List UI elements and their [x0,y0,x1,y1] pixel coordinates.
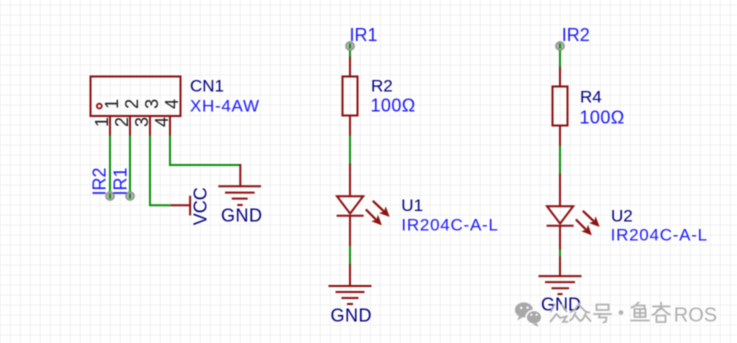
pin number 3 [132,117,152,127]
svg-text:IR204C-A-L: IR204C-A-L [611,226,708,245]
wire R2 to U1 [349,136,351,165]
pin 3 stub [149,116,151,136]
node dot IR2 [556,42,564,50]
power port VCC [171,196,191,216]
node dot pin2 [126,192,134,200]
gong [551,305,555,312]
svg-text:U2: U2 [611,206,633,225]
svg-text:1: 1 [92,117,112,127]
pin number 1 [92,117,112,127]
LED U2 [547,174,574,250]
value 100ohm [371,95,416,115]
node dot pin1 [106,192,114,200]
designator U1 [401,196,423,215]
ground GND (U2) [539,257,582,295]
xiang [653,306,670,308]
pin number 2 [112,117,132,127]
svg-text:2: 2 [112,117,132,127]
designator CN1 [190,76,224,95]
svg-text:U1: U1 [401,196,423,215]
svg-text:VCC: VCC [191,187,211,225]
svg-text:IR1: IR1 [350,25,378,45]
pin name 3 (inside box) [142,99,162,109]
watermark text ROS [674,305,717,327]
pin number 4 [152,117,172,127]
yu [632,303,639,308]
ground text GND (connector) [221,205,263,225]
svg-text:ROS: ROS [674,305,717,327]
svg-text:4: 4 [152,117,172,127]
LED U2 emission arrows [576,211,599,235]
wire IR1 to R2 [349,51,351,58]
pin name 1 (inside box) [102,99,122,109]
LED U1 emission arrows [366,201,389,225]
svg-text:XH-4AW: XH-4AW [190,97,260,116]
wire pin3 down [149,136,151,206]
designator R4 [580,88,602,107]
net label IR1 (rotated) [111,167,131,195]
wire U1 to ground [349,246,351,265]
pin 2 stub [129,116,131,136]
net label IR2 (top) [562,25,590,45]
value 100ohm (R4) [580,107,625,127]
svg-text:4: 4 [162,99,182,109]
pin name 2 (inside box) [122,99,142,109]
comment IR204C-A-L (U1) [401,216,498,235]
resistor R2 [343,57,358,136]
svg-text:1: 1 [102,99,122,109]
ground text GND (U1) [331,305,373,325]
wire pin2 down [129,136,131,192]
svg-text:GND: GND [331,305,373,325]
net label IR2 (rotated) [90,167,110,195]
pin name 4 (inside box) [162,99,182,109]
node dot IR1 [346,42,354,50]
power text VCC (rotated) [191,187,211,225]
svg-text:100Ω: 100Ω [580,107,625,127]
watermark wechat icon [515,302,542,326]
wire pin4 right to GND [169,164,240,166]
net label IR1 (top) [350,25,378,45]
svg-text:GND: GND [221,205,263,225]
svg-text:IR2: IR2 [562,25,590,45]
ground GND (connector) [218,164,261,205]
LED U1 [337,164,364,247]
svg-text:IR2: IR2 [90,167,110,195]
pin 4 stub [169,116,171,136]
designator U2 [611,206,633,225]
svg-text:CN1: CN1 [190,76,224,95]
hao [597,305,609,311]
resistor R4 [553,67,568,146]
svg-text:100Ω: 100Ω [371,95,416,115]
pin 1 stub [109,116,111,136]
wire IR2 to R4 [559,51,561,68]
wire pin4 down [169,136,171,166]
svg-text:3: 3 [132,117,152,127]
dot [619,310,624,315]
wire pin1 down [109,136,111,192]
ground text GND (U2) [541,295,581,315]
svg-text:IR204C-A-L: IR204C-A-L [401,216,498,235]
wire pin3 right to VCC [149,204,171,206]
svg-text:R4: R4 [580,88,602,107]
zhong [571,303,581,312]
watermark text gongzhonghao [551,303,670,323]
pin 1 marker circle [97,104,102,109]
svg-text:2: 2 [122,99,142,109]
svg-text:R2: R2 [371,76,393,95]
svg-text:GND: GND [541,295,581,315]
svg-text:IR1: IR1 [111,167,131,195]
connector CN1 body [91,77,181,117]
wire R4 to U2 [559,146,561,175]
designator R2 [371,76,393,95]
comment XH-4AW [190,97,260,116]
svg-text:3: 3 [142,99,162,109]
wire U2 to ground [559,250,561,258]
comment IR204C-A-L (U2) [611,226,708,245]
ground GND (U1) [329,264,372,304]
